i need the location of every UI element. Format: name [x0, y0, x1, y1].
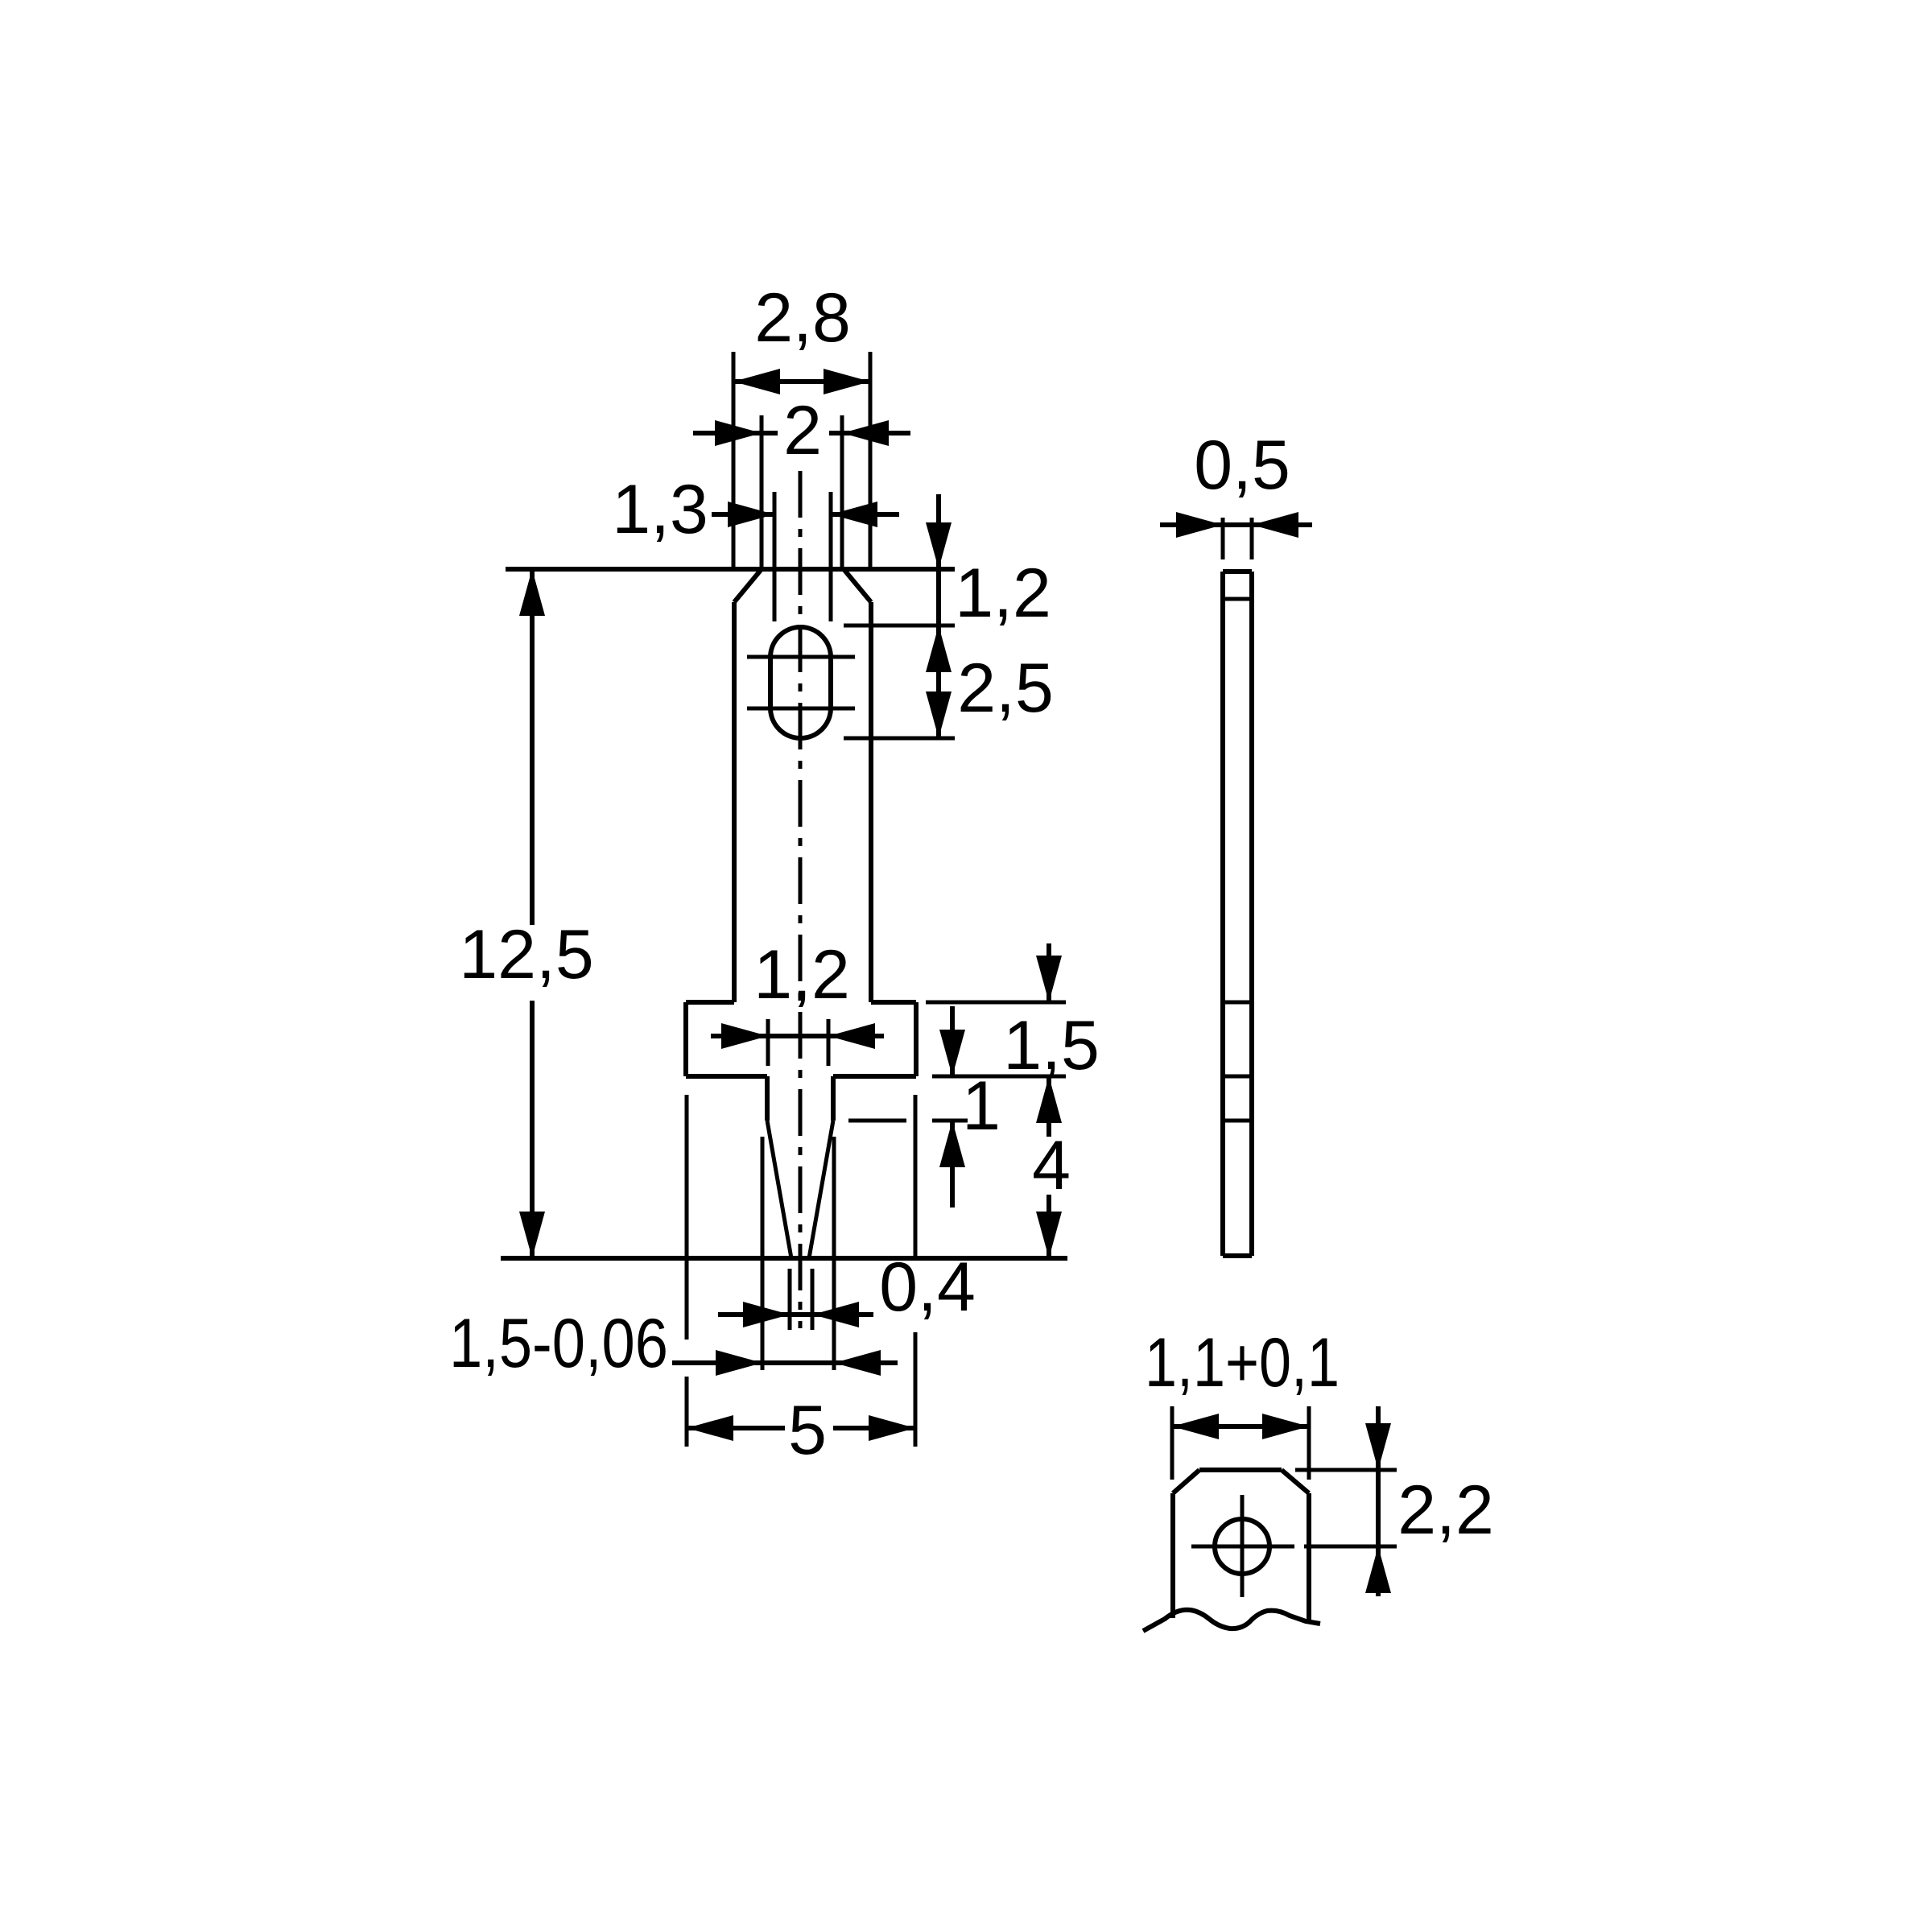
- side view left edge: [1220, 572, 1225, 1256]
- dim 1,2 / 2,5 vertical line: [936, 494, 941, 738]
- dim 2 extension left: [760, 415, 764, 568]
- dim 2,2 ref top: [1295, 1468, 1397, 1472]
- dim 1,1+0,1 line: [1172, 1424, 1309, 1429]
- terminal front view: top tab edge: [762, 567, 844, 572]
- crossbar top right: [871, 1000, 916, 1005]
- slot bottom extension line: [844, 737, 955, 741]
- pin taper left: [767, 1121, 791, 1258]
- dim 1,1+0,1 ext left: [1170, 1406, 1174, 1480]
- dim 2,8 extension left: [732, 352, 736, 568]
- dim 0,4 line: [718, 1312, 873, 1317]
- side view bend line 2: [1223, 1001, 1252, 1005]
- dim 1,3 line right: [831, 512, 899, 517]
- hole centerline horizontal: [1191, 1545, 1294, 1549]
- side view bend line 3: [1223, 1075, 1252, 1079]
- top view break line: [1143, 1610, 1320, 1631]
- top view left edge: [1170, 1493, 1175, 1618]
- dim 1 line upper: [950, 1006, 955, 1076]
- crossbar bottom extension right: [932, 1075, 1066, 1079]
- dim 1,3 extension left: [773, 492, 777, 621]
- tab left edge: [732, 602, 737, 1002]
- tip ext left x=981: [788, 1269, 792, 1330]
- crossbar right edge: [914, 1002, 919, 1076]
- svg-text:4: 4: [1032, 1127, 1071, 1204]
- dim 5 ext left: [685, 1095, 689, 1340]
- dim 1,2 crossbar ext left: [766, 1019, 770, 1066]
- dim 1,2 crossbar ext right: [827, 1019, 831, 1066]
- svg-text:1,2: 1,2: [955, 555, 1051, 632]
- slot center tick lower: [747, 707, 855, 711]
- dim 0,5 ext right: [1250, 518, 1254, 559]
- side view bottom edge: [1223, 1253, 1252, 1258]
- svg-text:1,1+0,1: 1,1+0,1: [1145, 1324, 1340, 1402]
- dim 0,5 ext left: [1221, 518, 1225, 559]
- svg-text:0,5: 0,5: [1194, 427, 1290, 504]
- tip ext right x=1009: [811, 1269, 815, 1330]
- side view top edge: [1223, 569, 1252, 574]
- dim 1,2 crossbar line: [711, 1034, 884, 1038]
- svg-text:1,2: 1,2: [753, 936, 850, 1013]
- dim 5 line right: [833, 1426, 915, 1430]
- svg-text:1: 1: [962, 1067, 1001, 1145]
- top view chamfer left: [1173, 1470, 1199, 1493]
- dim 2,8 extension right: [869, 352, 873, 568]
- taper start extension right a: [848, 1119, 906, 1123]
- dim 12,5 line lower: [530, 1001, 535, 1256]
- dim 1,5-0,06 line: [672, 1360, 898, 1365]
- dim 0,5 line: [1160, 522, 1312, 527]
- dim 1,5/4 line lower: [1046, 1076, 1051, 1137]
- slot top extension line: [844, 624, 955, 628]
- pin width ext right x=1036: [832, 1137, 836, 1370]
- side view bend line 1: [1223, 597, 1252, 601]
- svg-text:2: 2: [783, 392, 822, 469]
- side view bend line 4: [1223, 1119, 1252, 1123]
- dim 1 line lower: [950, 1121, 955, 1207]
- svg-text:1,3: 1,3: [612, 471, 708, 548]
- dim 1,1+0,1 ext right: [1307, 1406, 1311, 1480]
- top view chamfer right: [1282, 1470, 1309, 1493]
- dim 2,2 ref bottom: [1304, 1545, 1397, 1549]
- slot center tick upper: [747, 655, 855, 659]
- tab chamfer left: [734, 569, 762, 602]
- slot (oblong hole): [770, 627, 831, 738]
- pin stub right: [831, 1076, 836, 1121]
- dim 2 line right: [829, 431, 910, 436]
- dim 1,5 line upper: [1046, 943, 1051, 1002]
- top view top edge: [1199, 1468, 1282, 1472]
- top view hole: [1215, 1519, 1269, 1574]
- taper start extension right b: [932, 1119, 968, 1123]
- bottom reference line y=1563: [501, 1256, 1067, 1261]
- svg-text:2,5: 2,5: [957, 650, 1054, 727]
- dim 2 line left: [693, 431, 778, 436]
- dim 5 ext right: [914, 1095, 918, 1258]
- dim 12,5 line upper: [530, 572, 535, 925]
- dim 2 extension right: [840, 415, 844, 568]
- dim 2,8 line: [733, 379, 870, 384]
- top view right edge: [1307, 1493, 1311, 1622]
- svg-text:1,5-0,06: 1,5-0,06: [449, 1305, 668, 1382]
- dim 1,3 extension right: [829, 492, 833, 621]
- side view right edge: [1249, 572, 1254, 1256]
- crossbar bottom right: [833, 1074, 916, 1079]
- dim 2,2 line: [1376, 1406, 1381, 1596]
- svg-text:1,5: 1,5: [1003, 1007, 1100, 1084]
- svg-text:2,2: 2,2: [1397, 1472, 1494, 1549]
- pin taper right: [809, 1121, 833, 1258]
- tab chamfer right: [844, 569, 871, 602]
- pin width ext left x=947: [761, 1137, 765, 1370]
- svg-text:5: 5: [788, 1392, 827, 1469]
- svg-text:12,5: 12,5: [459, 916, 593, 993]
- tab right edge: [869, 602, 873, 1002]
- dim 5 line left: [687, 1426, 785, 1430]
- dim 1,3 line left: [712, 512, 774, 517]
- crossbar top extension right: [926, 1001, 1066, 1005]
- svg-text:2,8: 2,8: [754, 279, 851, 357]
- svg-text:0,4: 0,4: [879, 1249, 976, 1326]
- vertical centerline (dash-dot): [799, 471, 803, 1328]
- crossbar left edge: [683, 1002, 688, 1076]
- crossbar bottom left: [686, 1074, 767, 1079]
- top reference line y=707: [506, 567, 955, 572]
- pin stub left: [765, 1076, 770, 1121]
- hole centerline vertical: [1241, 1495, 1245, 1597]
- crossbar top left: [686, 1000, 734, 1005]
